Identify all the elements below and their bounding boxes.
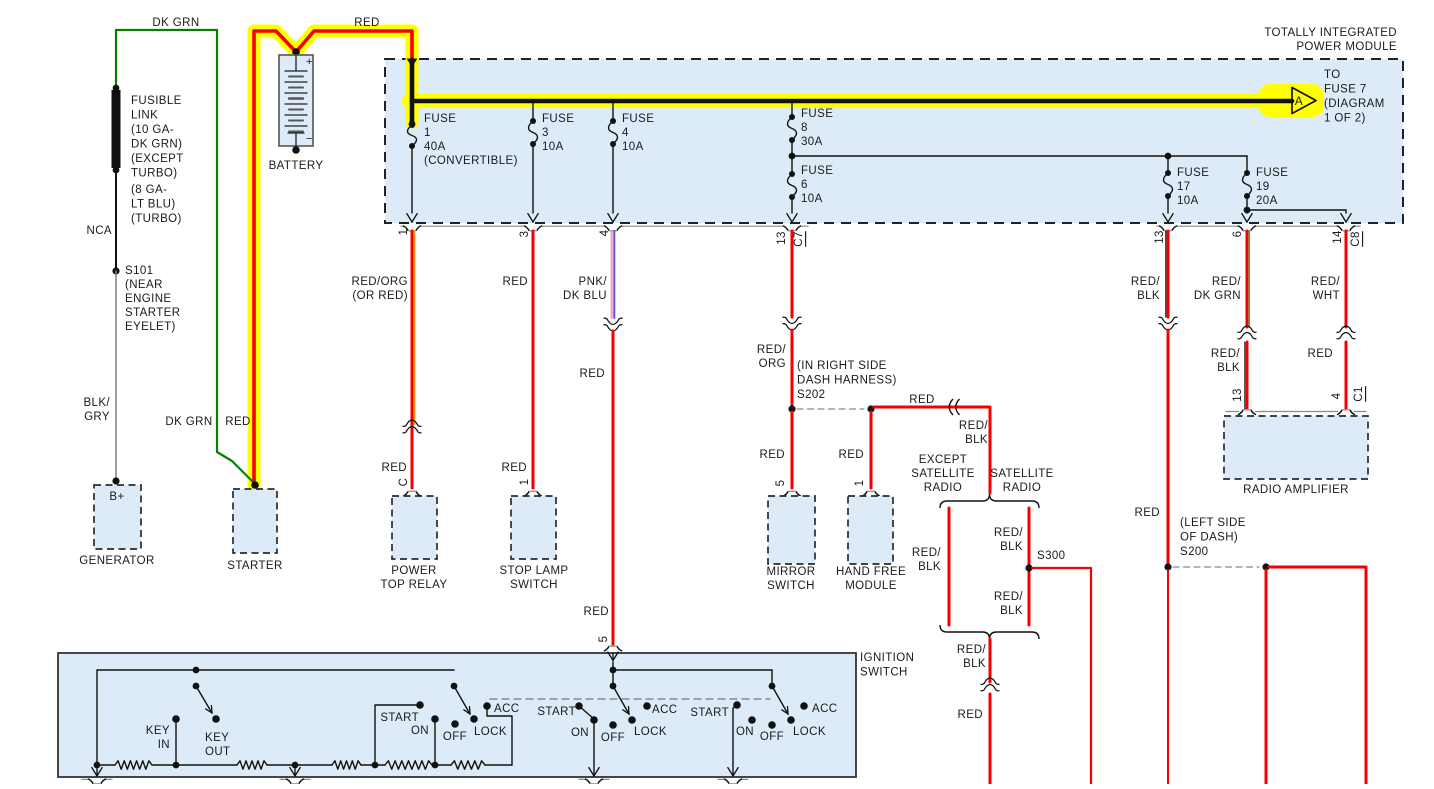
bank3 START contact and output wire <box>733 701 741 709</box>
wire RED/WHT pin14 <box>1345 231 1348 327</box>
splice S300 <box>1025 564 1032 571</box>
svg-text:1 OF 2): 1 OF 2) <box>1324 113 1366 125</box>
arrow A to FUSE 7 diagram 1 of 2 <box>1292 88 1316 114</box>
svg-text:TURBO): TURBO) <box>131 168 177 180</box>
connector C8 gray line <box>1157 225 1160 227</box>
splice S200 right node <box>1262 563 1269 570</box>
bank3 pivot <box>769 683 776 690</box>
svg-text:RADIO AMPLIFIER: RADIO AMPLIFIER <box>1243 484 1349 496</box>
bank2 pivot <box>610 683 617 690</box>
node key-in junction <box>173 762 180 769</box>
svg-text:RED: RED <box>839 449 864 461</box>
starter box <box>233 489 277 553</box>
svg-text:RADIO: RADIO <box>924 482 962 494</box>
node starter battery terminal <box>251 481 259 489</box>
svg-text:+: + <box>306 56 313 68</box>
wire RED/ORG to splice S202 <box>791 330 794 406</box>
wire RED/BLK from S300 down right side <box>1032 568 1091 784</box>
svg-text:20A: 20A <box>1256 195 1278 207</box>
svg-text:SWITCH: SWITCH <box>767 580 815 592</box>
wire BLK/GRY to generator <box>115 271 117 480</box>
svg-text:OFF: OFF <box>760 731 784 743</box>
svg-text:DK GRN: DK GRN <box>165 416 212 428</box>
svg-text:−: − <box>306 133 313 145</box>
svg-text:KEY: KEY <box>146 725 170 737</box>
svg-text:10A: 10A <box>801 193 823 205</box>
svg-text:S202: S202 <box>797 389 825 401</box>
svg-text:S300: S300 <box>1037 550 1065 562</box>
svg-text:BLK: BLK <box>1137 290 1160 302</box>
node fuse19 output junction <box>1244 207 1251 214</box>
svg-text:IN: IN <box>158 739 170 751</box>
svg-text:8: 8 <box>801 122 808 134</box>
arrow into TIPM from battery feed <box>407 59 418 68</box>
svg-text:ENGINE: ENGINE <box>125 293 172 305</box>
svg-text:B+: B+ <box>109 491 124 503</box>
key switch pivot node <box>193 667 200 674</box>
svg-text:RED/: RED/ <box>994 527 1023 539</box>
ignition output 1 exit <box>96 765 98 776</box>
svg-text:ACC: ACC <box>652 704 677 716</box>
wire RED S202 to hand free module <box>870 412 873 488</box>
svg-text:(LEFT SIDE: (LEFT SIDE <box>1180 517 1246 529</box>
inline connector horizontal <box>949 399 953 415</box>
yellow highlight main bus <box>409 94 1282 108</box>
svg-text:RED: RED <box>958 709 983 721</box>
svg-text:GENERATOR: GENERATOR <box>79 555 154 567</box>
bank2 START contact <box>575 702 583 710</box>
wire RED below S200 <box>1167 570 1169 784</box>
connector C7 pin cups <box>404 226 409 230</box>
bank3 ON contact <box>748 716 756 724</box>
inline connector pin13 wire <box>783 317 802 323</box>
svg-text:4: 4 <box>599 229 611 236</box>
svg-text:C7: C7 <box>793 231 805 247</box>
svg-text:START: START <box>690 707 729 719</box>
svg-text:10A: 10A <box>542 141 564 153</box>
bank2 OFF contact <box>609 721 617 729</box>
inline connector pin6 wire <box>1238 333 1257 339</box>
svg-text:SWITCH: SWITCH <box>510 579 558 591</box>
svg-text:C1: C1 <box>1353 386 1365 402</box>
svg-text:10A: 10A <box>1177 195 1199 207</box>
bank2 feed junction <box>612 662 614 686</box>
svg-text:1: 1 <box>854 480 866 487</box>
ignition switch module box <box>58 653 856 777</box>
wire RED to ignition switch <box>612 331 615 645</box>
svg-text:17: 17 <box>1177 181 1191 193</box>
wire to fuses 17 and 19 <box>792 155 1247 157</box>
svg-text:FUSE: FUSE <box>801 165 833 177</box>
connector C8 pin cups <box>1160 226 1165 230</box>
svg-text:BLK: BLK <box>1217 362 1240 374</box>
bank1 LOCK contact <box>470 715 478 723</box>
svg-text:EYELET): EYELET) <box>125 321 176 333</box>
svg-text:RADIO: RADIO <box>1003 482 1041 494</box>
svg-text:(EXCEPT: (EXCEPT <box>131 153 184 165</box>
node fuse17 tap <box>1165 153 1172 160</box>
inline connector pin4 wire <box>604 318 623 324</box>
svg-text:ON: ON <box>736 726 754 738</box>
svg-text:TO: TO <box>1324 69 1341 81</box>
svg-text:START: START <box>537 706 576 718</box>
wire RED from S200 to far right drop <box>1269 567 1366 784</box>
wire RED pin3 to stop lamp switch <box>532 231 535 488</box>
svg-text:BLK: BLK <box>963 658 986 670</box>
svg-text:FUSE: FUSE <box>542 113 574 125</box>
wire DK GRN top horizontal <box>116 29 217 31</box>
wire RED to radio amplifier pin4 <box>1345 342 1348 409</box>
svg-text:1: 1 <box>519 479 531 486</box>
fuse F3 10A <box>532 103 534 121</box>
svg-text:4: 4 <box>1331 392 1343 399</box>
svg-text:RED/: RED/ <box>957 644 986 656</box>
svg-text:RED/: RED/ <box>1131 276 1160 288</box>
svg-text:LOCK: LOCK <box>793 726 826 738</box>
inline connector fuse17 wire <box>1159 317 1178 323</box>
svg-text:DASH HARNESS): DASH HARNESS) <box>797 375 897 387</box>
svg-text:OFF: OFF <box>443 731 467 743</box>
svg-text:RED/: RED/ <box>994 591 1023 603</box>
svg-text:BLK: BLK <box>1000 541 1023 553</box>
bank3 LOCK contact <box>787 716 795 724</box>
svg-text:TOTALLY INTEGRATED: TOTALLY INTEGRATED <box>1264 27 1397 39</box>
svg-text:13: 13 <box>1154 230 1166 244</box>
splice S200 <box>1164 563 1171 570</box>
bank2 ACC contact <box>643 702 651 710</box>
svg-text:A: A <box>1295 94 1303 108</box>
main bus wire to arrow A <box>412 99 1292 104</box>
power top relay box <box>392 496 437 559</box>
svg-text:30A: 30A <box>801 136 823 148</box>
yellow highlight blob at arrow A <box>1258 84 1324 117</box>
svg-text:S101: S101 <box>125 265 153 277</box>
svg-text:RED/: RED/ <box>1211 348 1240 360</box>
svg-text:RED: RED <box>503 276 528 288</box>
svg-text:3: 3 <box>542 127 549 139</box>
battery negative terminal node <box>292 146 300 154</box>
ignition bottom connector cups <box>82 778 88 780</box>
radio amplifier connector line <box>1226 411 1239 413</box>
svg-text:RED/: RED/ <box>959 420 988 432</box>
key switch arm <box>196 686 212 713</box>
bank1 START contact and wire <box>416 701 424 709</box>
svg-text:1: 1 <box>398 229 410 236</box>
svg-text:FUSE: FUSE <box>424 113 456 125</box>
stop lamp switch box <box>511 496 556 559</box>
battery positive terminal node <box>292 48 300 56</box>
wire RED to bottom <box>989 694 992 784</box>
node start contact junction <box>372 762 379 769</box>
svg-text:13: 13 <box>1232 388 1244 402</box>
svg-text:ACC: ACC <box>812 703 837 715</box>
key out contact <box>212 715 220 723</box>
svg-text:5: 5 <box>598 636 610 643</box>
wire RED to S200 <box>1167 330 1170 564</box>
svg-text:(CONVERTIBLE): (CONVERTIBLE) <box>424 155 518 167</box>
svg-text:GRY: GRY <box>84 411 110 423</box>
wire PNK/DK BLU pin4 <box>611 231 613 318</box>
svg-text:FUSIBLE: FUSIBLE <box>131 95 182 107</box>
svg-text:OF DASH): OF DASH) <box>1180 532 1238 544</box>
svg-text:HAND FREE: HAND FREE <box>836 566 906 578</box>
svg-text:EXCEPT: EXCEPT <box>919 454 967 466</box>
fuse F1 40A <box>409 121 416 128</box>
svg-text:19: 19 <box>1256 181 1270 193</box>
brace under satellite options <box>940 625 1039 639</box>
wire RED/BLK satellite branch <box>1028 508 1031 625</box>
svg-text:4: 4 <box>622 127 629 139</box>
svg-text:S200: S200 <box>1180 546 1208 558</box>
svg-text:FUSE: FUSE <box>622 113 654 125</box>
svg-text:RED/: RED/ <box>1311 276 1340 288</box>
hand free module box <box>848 496 893 564</box>
wire DK GRN left drop to fusible link <box>115 30 117 87</box>
svg-text:(OR RED): (OR RED) <box>352 290 408 302</box>
inline connector below brace <box>981 685 1000 691</box>
svg-text:RED: RED <box>502 462 527 474</box>
ignition feed bus left section <box>97 670 454 765</box>
wire RED/BLK below brace <box>989 639 992 682</box>
wire branch to pin 14 <box>1247 210 1346 213</box>
svg-text:(8 GA-: (8 GA- <box>131 184 167 196</box>
bank3 switch arm to LOCK <box>772 686 788 714</box>
fuse F8 30A <box>791 103 793 117</box>
svg-text:DK GRN: DK GRN <box>152 17 199 29</box>
svg-text:BLK: BLK <box>1000 605 1023 617</box>
bank3 OFF contact <box>768 721 776 729</box>
svg-text:FUSE: FUSE <box>1256 167 1288 179</box>
svg-text:RED/: RED/ <box>912 547 941 559</box>
mechanical linkage dashed line <box>490 698 770 700</box>
svg-text:DK BLU: DK BLU <box>563 290 607 302</box>
svg-text:(10 GA-: (10 GA- <box>131 124 174 136</box>
bank1 ACC contact and wire <box>483 702 491 710</box>
wire RED battery positive cable <box>254 31 412 486</box>
splice S101 <box>112 267 119 274</box>
bank2 switch arm to LOCK <box>613 686 629 714</box>
svg-text:(IN RIGHT SIDE: (IN RIGHT SIDE <box>797 360 887 372</box>
svg-text:RED: RED <box>1308 348 1333 360</box>
yellow highlight battery feed <box>254 31 412 486</box>
thick feed wire inside TIPM <box>410 60 415 124</box>
wire RED from S200 node down <box>1265 570 1268 784</box>
node fuse8 output junction <box>791 140 793 156</box>
svg-text:TOP RELAY: TOP RELAY <box>381 579 448 591</box>
TIPM bottom pin exit arrows <box>407 214 417 223</box>
wire RED/DK GRN pin6 <box>1246 231 1249 327</box>
svg-text:14: 14 <box>1332 230 1344 244</box>
key in contact and wire <box>172 715 180 723</box>
svg-text:IGNITION: IGNITION <box>860 652 914 664</box>
wire RED/BLK pin13 C8 <box>1167 231 1170 317</box>
svg-text:ON: ON <box>571 727 589 739</box>
bank1 ON contact and wire <box>431 715 439 723</box>
svg-text:ORG: ORG <box>759 358 786 370</box>
svg-text:RED: RED <box>580 368 605 380</box>
node output 1 <box>94 762 101 769</box>
svg-text:(NEAR: (NEAR <box>125 279 163 291</box>
battery symbol <box>279 55 313 146</box>
node on contact junction <box>432 762 439 769</box>
svg-text:13: 13 <box>776 231 788 245</box>
svg-text:FUSE: FUSE <box>801 108 833 120</box>
svg-text:RED/: RED/ <box>757 344 786 356</box>
svg-text:MODULE: MODULE <box>845 580 897 592</box>
svg-text:STOP LAMP: STOP LAMP <box>499 565 568 577</box>
svg-text:RED/ORG: RED/ORG <box>352 276 408 288</box>
svg-text:PNK/: PNK/ <box>579 276 608 288</box>
svg-text:MIRROR: MIRROR <box>766 566 815 578</box>
svg-text:RED: RED <box>909 394 934 406</box>
svg-text:RED/: RED/ <box>1212 276 1241 288</box>
splice S202 right node <box>867 405 874 412</box>
svg-text:RED: RED <box>1135 507 1160 519</box>
svg-text:(DIAGRAM: (DIAGRAM <box>1324 98 1385 110</box>
svg-text:RED: RED <box>382 462 407 474</box>
bank3 feed corner <box>771 670 773 686</box>
dashed splice link S200 <box>1173 566 1259 568</box>
svg-text:ACC: ACC <box>494 703 519 715</box>
svg-text:(TURBO): (TURBO) <box>131 213 182 225</box>
svg-text:C8: C8 <box>1350 231 1362 247</box>
svg-text:FUSE 7: FUSE 7 <box>1324 84 1367 96</box>
svg-text:STARTER: STARTER <box>125 307 180 319</box>
bank1 switch arm to LOCK <box>454 686 470 714</box>
node output 2 <box>292 762 299 769</box>
fuse F17 10A <box>1167 156 1169 173</box>
ignition output 2 exit <box>294 765 296 776</box>
svg-text:OFF: OFF <box>601 732 625 744</box>
svg-text:SWITCH: SWITCH <box>860 667 908 679</box>
bank2 START to ON link <box>579 706 594 719</box>
resistor chain bottom wire <box>115 761 152 769</box>
bank2 feed to bank3 <box>613 669 772 671</box>
svg-text:LOCK: LOCK <box>474 726 507 738</box>
svg-text:BLK: BLK <box>918 561 941 573</box>
svg-text:C: C <box>398 478 410 487</box>
wire NCA black section <box>115 170 117 271</box>
svg-text:RED: RED <box>584 606 609 618</box>
fusible link (thick bar) <box>113 85 120 92</box>
bank3 ACC contact <box>800 702 808 710</box>
fuse F6 10A <box>791 156 793 174</box>
node generator B+ terminal <box>112 477 119 484</box>
svg-text:POWER MODULE: POWER MODULE <box>1296 41 1397 53</box>
svg-text:WHT: WHT <box>1313 290 1340 302</box>
inline connector pin14 wire <box>1337 333 1356 339</box>
brace over satellite options <box>940 494 1039 508</box>
svg-text:LOCK: LOCK <box>634 726 667 738</box>
svg-text:6: 6 <box>1232 231 1244 238</box>
svg-text:POWER: POWER <box>391 565 436 577</box>
svg-text:SATELLITE: SATELLITE <box>911 468 974 480</box>
svg-text:10A: 10A <box>622 141 644 153</box>
svg-text:FUSE: FUSE <box>1177 167 1209 179</box>
bank2 ON contact and output wire <box>590 716 598 724</box>
generator box <box>94 485 141 549</box>
svg-text:40A: 40A <box>424 141 446 153</box>
svg-text:START: START <box>380 712 419 724</box>
svg-text:NCA: NCA <box>87 225 112 237</box>
wire RED S202 to mirror switch <box>791 412 794 488</box>
svg-text:RED: RED <box>354 17 379 29</box>
TIPM module box (TOTALLY INTEGRATED POWER MODULE) <box>385 59 1403 223</box>
wire DK GRN right drop to starter <box>217 30 255 484</box>
inline connector on RED/ORG wire <box>403 427 422 433</box>
connector C7 gray line <box>401 225 404 227</box>
bank1 OFF contact <box>451 720 459 728</box>
wire RED pin13 <box>791 231 794 317</box>
svg-text:RED: RED <box>760 449 785 461</box>
dashed splice link S202 <box>797 408 864 410</box>
svg-text:1: 1 <box>424 127 431 139</box>
svg-text:KEY: KEY <box>205 732 229 744</box>
svg-text:RED: RED <box>225 416 250 428</box>
svg-text:STARTER: STARTER <box>227 560 282 572</box>
svg-text:BATTERY: BATTERY <box>269 160 324 172</box>
wire RED/ORG pin1 to power top relay <box>411 231 414 488</box>
svg-text:LT BLU): LT BLU) <box>131 199 176 211</box>
wire RED S202 to satellite branch <box>874 407 990 493</box>
svg-text:3: 3 <box>519 231 531 238</box>
svg-text:LINK: LINK <box>131 110 158 122</box>
svg-text:DK GRN): DK GRN) <box>131 139 182 151</box>
wire RED/BLK except satellite <box>948 508 951 625</box>
svg-text:OUT: OUT <box>205 746 230 758</box>
svg-text:DK GRN: DK GRN <box>1194 290 1241 302</box>
arrow into ignition switch <box>612 653 614 661</box>
svg-text:SATELLITE: SATELLITE <box>990 468 1053 480</box>
bank1 pivot <box>451 683 458 690</box>
svg-text:5: 5 <box>775 480 787 487</box>
svg-text:BLK/: BLK/ <box>83 397 110 409</box>
fuse F19 20A <box>1246 156 1248 173</box>
fuse F4 10A <box>612 103 614 121</box>
svg-text:ON: ON <box>411 725 429 737</box>
wire RED/BLK to radio amplifier <box>1246 342 1249 409</box>
mirror switch box <box>768 496 815 564</box>
svg-text:6: 6 <box>801 179 808 191</box>
bank2 LOCK contact <box>628 716 636 724</box>
splice S202 <box>788 405 795 412</box>
svg-text:BLK: BLK <box>965 434 988 446</box>
radio amplifier box <box>1224 416 1368 479</box>
